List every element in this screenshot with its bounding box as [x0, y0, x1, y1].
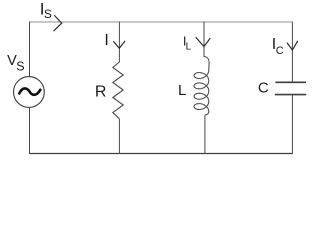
inductor L — [194, 57, 209, 116]
svg-text:L: L — [178, 82, 186, 99]
wire C branch upper — [291, 22, 293, 83]
label IS — [40, 0, 52, 21]
wire R branch upper — [118, 22, 120, 63]
svg-text:S: S — [44, 7, 52, 21]
label IL — [183, 33, 192, 52]
wire C branch lower — [291, 95, 293, 154]
svg-text:S: S — [16, 60, 24, 74]
svg-text:C: C — [276, 45, 284, 57]
wire L branch lower — [204, 115, 206, 154]
svg-text:C: C — [258, 79, 269, 96]
wire L branch upper — [203, 22, 205, 58]
svg-text:I: I — [104, 32, 108, 49]
wire R branch lower — [118, 119, 120, 154]
current arrow IL — [196, 38, 210, 47]
current arrow IC — [287, 41, 297, 50]
wire top bus — [30, 21, 293, 23]
capacitor C — [275, 82, 306, 94]
label VS — [7, 53, 24, 74]
label R — [95, 84, 107, 101]
current arrow IS — [54, 16, 62, 31]
label I (R branch) — [104, 32, 108, 49]
resistor R — [113, 62, 123, 119]
current arrow I (R branch) — [114, 41, 125, 48]
label IC — [272, 36, 284, 57]
AC source VS — [14, 77, 45, 108]
svg-text:L: L — [186, 41, 192, 52]
wire left vertical lower — [29, 107, 31, 154]
wire left vertical upper — [29, 22, 31, 77]
svg-text:R: R — [95, 84, 107, 101]
label C — [258, 79, 269, 96]
label L — [178, 82, 186, 99]
wire bottom bus — [29, 153, 293, 155]
